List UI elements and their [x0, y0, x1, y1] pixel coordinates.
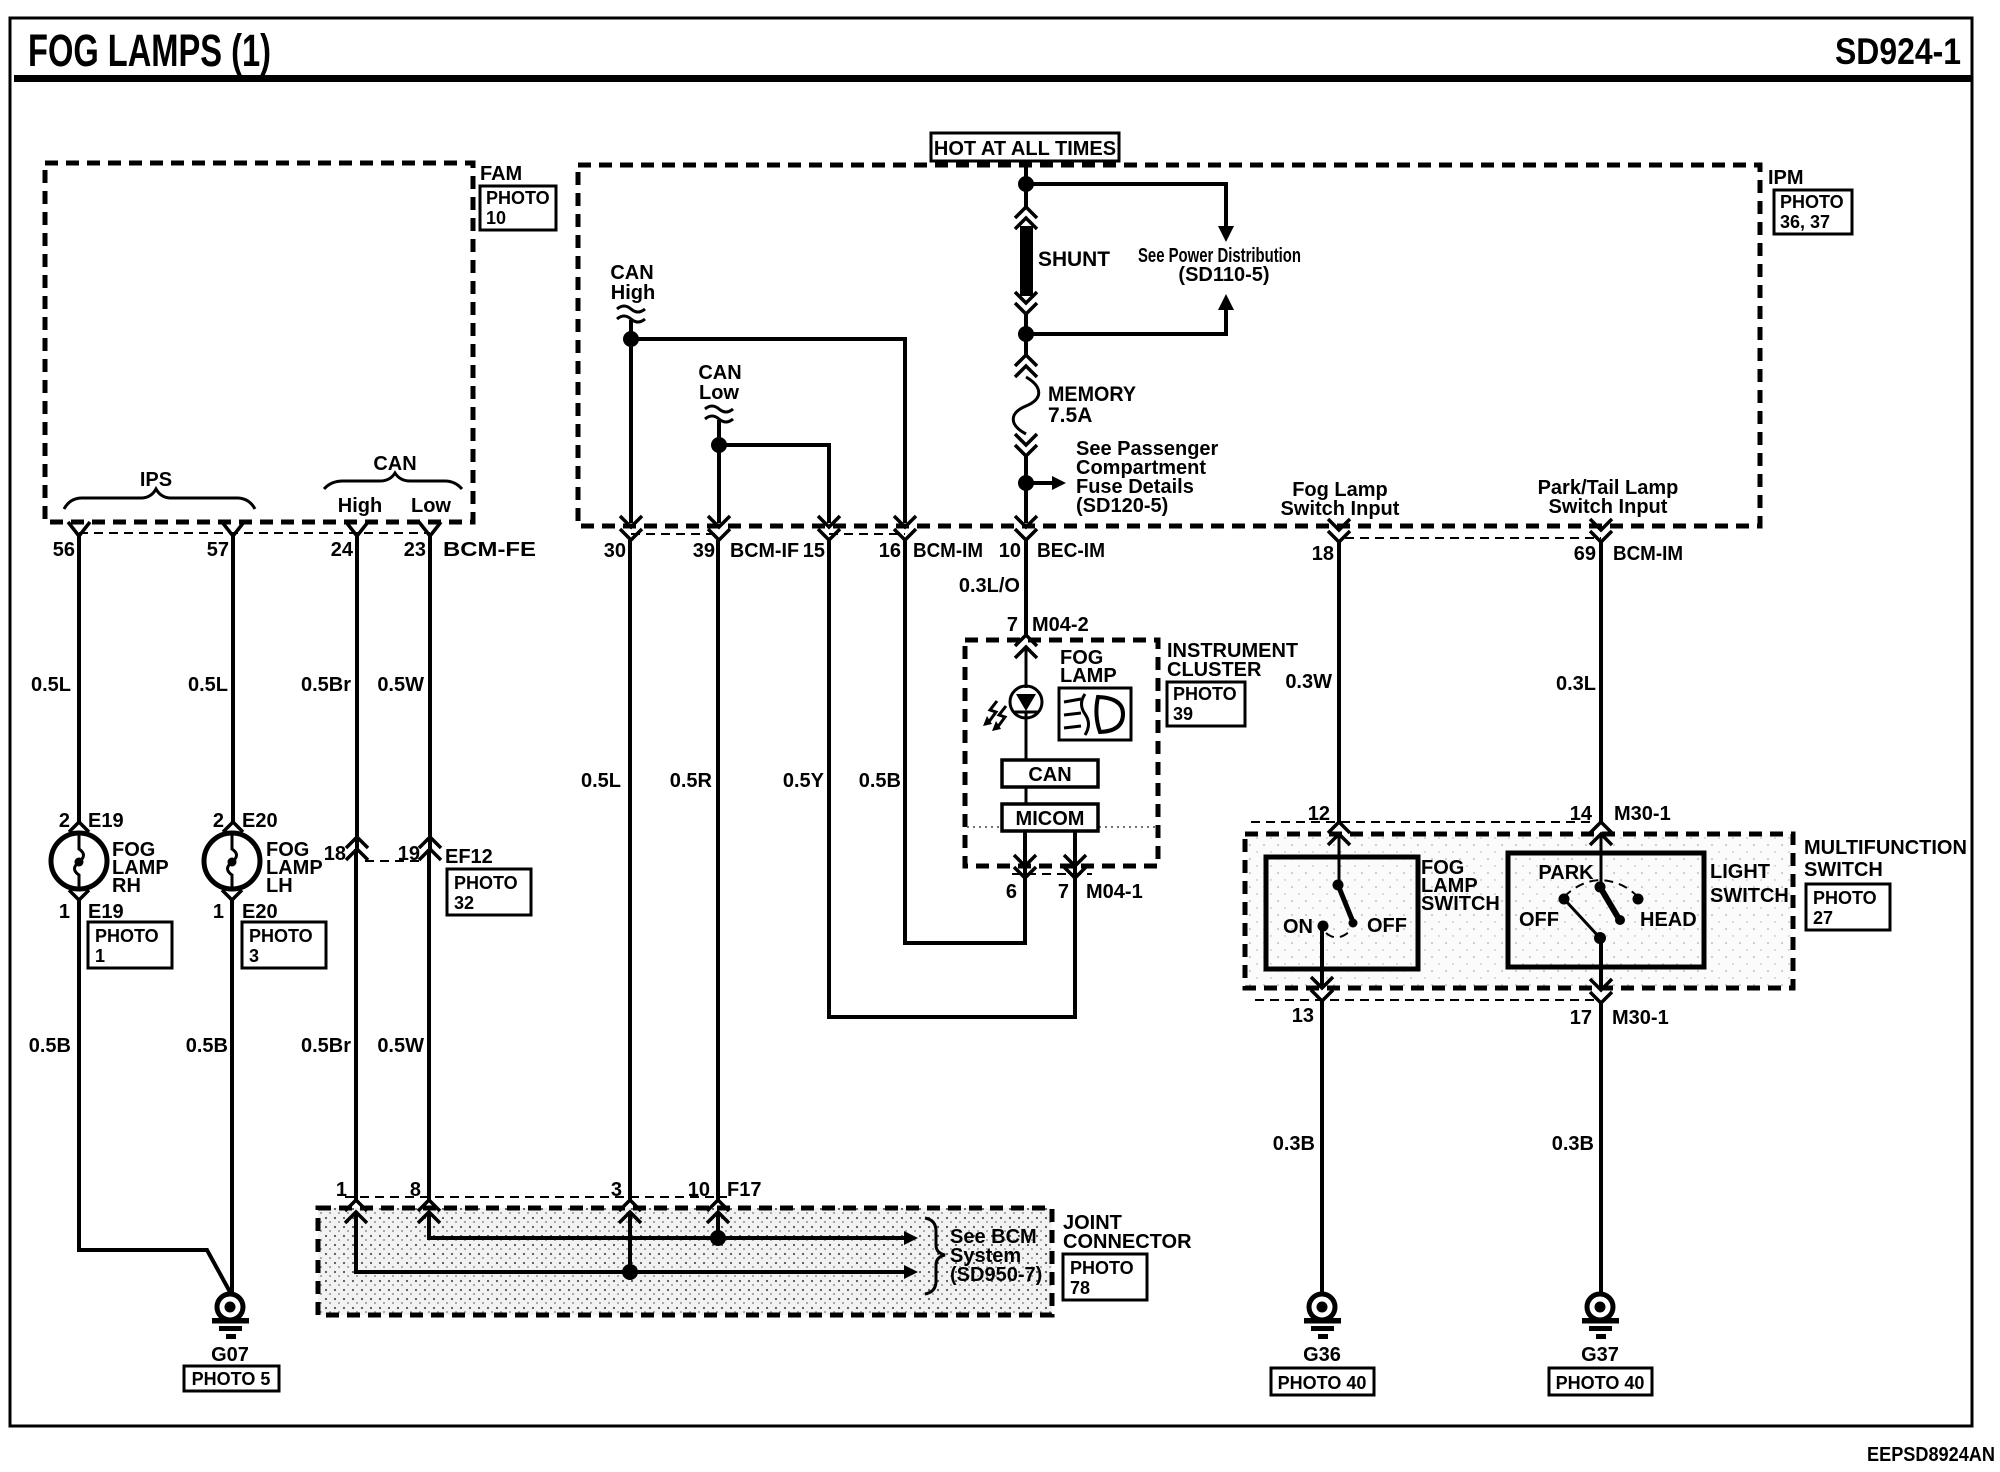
fog lamp RH E19 pin1 connector	[59, 890, 124, 923]
svg-text:MEMORY: MEMORY	[1048, 383, 1136, 406]
svg-text:39: 39	[693, 540, 715, 562]
LIGHT SWITCH label	[1710, 861, 1789, 907]
fog switch dashed travel arc	[1326, 930, 1351, 937]
wire 0.5R pin39 to joint pin10	[670, 540, 718, 1201]
svg-text:0.3L/O: 0.3L/O	[959, 575, 1020, 597]
svg-text:18: 18	[1312, 543, 1334, 565]
JOINT CONNECTOR PHOTO 78 box	[1063, 1254, 1147, 1300]
connector pin 56 crossing	[68, 522, 90, 536]
svg-text:2: 2	[59, 810, 70, 832]
svg-text:PHOTO: PHOTO	[486, 188, 550, 208]
FAM PHOTO 10 box	[480, 186, 556, 230]
svg-text:BCM-IM: BCM-IM	[1613, 543, 1683, 565]
svg-text:PHOTO: PHOTO	[95, 926, 159, 946]
svg-text:0.5L: 0.5L	[581, 770, 621, 792]
svg-text:PHOTO: PHOTO	[1173, 684, 1237, 704]
svg-text:Low: Low	[411, 495, 451, 517]
light switch OFF contact	[1519, 894, 1570, 932]
svg-text:7: 7	[1007, 614, 1018, 636]
wire 0.5B pin16 to cluster pin6	[859, 540, 1025, 943]
light switch output contact	[1564, 899, 1606, 944]
svg-text:3: 3	[611, 1179, 622, 1201]
G37 PHOTO 40 box	[1549, 1368, 1652, 1395]
svg-text:IPM: IPM	[1768, 167, 1804, 189]
wire 0.5Br pin24 upper	[301, 536, 357, 849]
svg-text:0.5Y: 0.5Y	[783, 770, 825, 792]
svg-text:Switch Input: Switch Input	[1281, 498, 1400, 520]
svg-text:High: High	[611, 282, 655, 304]
svg-text:6: 6	[1006, 881, 1017, 903]
svg-text:1: 1	[59, 901, 70, 923]
svg-text:M04-2: M04-2	[1032, 614, 1089, 636]
svg-text:0.5W: 0.5W	[377, 674, 424, 696]
connector pin 30 exit crossing	[620, 516, 642, 540]
shunt SHUNT bar	[1020, 226, 1110, 296]
svg-text:F17: F17	[727, 1179, 761, 1201]
svg-text:CAN: CAN	[373, 453, 416, 475]
svg-text:E19: E19	[88, 901, 124, 923]
joint connector pin 10 chevrons	[688, 1179, 762, 1223]
svg-text:13: 13	[1292, 1005, 1314, 1027]
svg-text:16: 16	[879, 540, 901, 562]
cluster PHOTO 39 box	[1167, 682, 1245, 726]
svg-text:BEC-IM: BEC-IM	[1037, 540, 1105, 562]
svg-text:HOT AT ALL TIMES: HOT AT ALL TIMES	[934, 138, 1116, 160]
joint connector pin 8 chevrons	[410, 1179, 440, 1223]
svg-text:0.3B: 0.3B	[1552, 1133, 1594, 1155]
svg-text:FOG LAMPS (1): FOG LAMPS (1)	[28, 25, 271, 76]
wire 0.3B fog switch to G36	[1273, 1001, 1322, 1294]
wire into light switch	[1600, 834, 1603, 887]
svg-text:8: 8	[410, 1179, 421, 1201]
svg-text:PHOTO 40: PHOTO 40	[1556, 1373, 1645, 1393]
connector pin 12 chevrons	[1308, 803, 1350, 845]
node CAN Low junction	[711, 437, 727, 453]
wire battery feed top	[1024, 161, 1028, 207]
See Passenger Compartment Fuse Details note	[1076, 438, 1219, 517]
node junction below shunt	[1018, 326, 1034, 342]
svg-text:0.5Br: 0.5Br	[301, 1035, 351, 1057]
svg-text:(SD950-7): (SD950-7)	[950, 1264, 1042, 1286]
svg-text:CAN: CAN	[698, 362, 741, 384]
svg-text:E20: E20	[242, 901, 278, 923]
ground G36	[1303, 1294, 1341, 1366]
svg-text:LIGHT: LIGHT	[1710, 861, 1770, 883]
wire 0.3L/O BEC-IM to cluster	[959, 540, 1026, 637]
svg-text:PHOTO: PHOTO	[249, 926, 313, 946]
svg-text:15: 15	[803, 540, 825, 562]
svg-text:BCM-IM: BCM-IM	[913, 540, 983, 562]
fog lamp LH E20 pin1 connector	[213, 890, 278, 923]
svg-text:CAN: CAN	[610, 262, 653, 284]
wire 0.5B E19 to ground	[29, 900, 230, 1292]
cluster faint dotted line	[967, 826, 1156, 828]
wire 0.3B light switch to G37	[1552, 1003, 1601, 1294]
wire CAN Low down (pin 39 column)	[717, 445, 721, 523]
wire CAN Low to pin 15 column	[719, 445, 829, 523]
multifunction PHOTO 27 box	[1806, 884, 1890, 930]
svg-text:69: 69	[1574, 543, 1596, 565]
svg-text:23: 23	[404, 539, 426, 561]
wire 0.5Y pin15 to cluster pin7	[783, 540, 1075, 1017]
fog lamp indicator icon box	[1059, 688, 1131, 740]
svg-text:0.3L: 0.3L	[1556, 673, 1596, 695]
IPM module box	[578, 165, 1760, 526]
svg-text:17: 17	[1570, 1007, 1592, 1029]
BCM-FE connector dashed line	[79, 532, 430, 534]
brace to BCM system	[925, 1218, 945, 1294]
svg-text:(SD120-5): (SD120-5)	[1076, 495, 1168, 517]
svg-text:Low: Low	[699, 382, 739, 404]
wire joint pin8 bus upper	[429, 1212, 918, 1245]
fuse bottom connector chevrons	[1015, 434, 1037, 523]
fuse MEMORY 7.5A element	[1013, 377, 1136, 434]
svg-text:SWITCH: SWITCH	[1710, 885, 1789, 907]
Fog Lamp Switch Input label	[1281, 479, 1400, 520]
wire branch from power distribution (bottom)	[1026, 294, 1234, 334]
svg-text:78: 78	[1070, 1278, 1090, 1298]
fog lamp RH E19 bulb	[51, 833, 169, 897]
fog lamp RH E19 pin2 connector	[59, 810, 124, 832]
svg-text:SWITCH: SWITCH	[1421, 893, 1500, 915]
fuse MEMORY 7.5A top chevrons	[1015, 355, 1037, 377]
svg-text:Switch Input: Switch Input	[1549, 496, 1668, 518]
wire joint pin10 drop	[716, 1212, 720, 1238]
instrument cluster box	[965, 640, 1158, 866]
svg-text:0.3W: 0.3W	[1285, 671, 1332, 693]
wire light switch output	[1599, 938, 1603, 990]
FAM module box	[45, 163, 473, 522]
svg-text:G37: G37	[1581, 1344, 1619, 1366]
svg-text:0.5B: 0.5B	[859, 770, 901, 792]
wire CAN High to pin 16 column	[631, 339, 905, 523]
INSTRUMENT CLUSTER label	[1167, 640, 1298, 681]
connector M04-1 pin 7 exit chevrons	[1064, 855, 1086, 878]
MULTIFUNCTION SWITCH label	[1804, 837, 1967, 881]
svg-text:PHOTO: PHOTO	[1813, 888, 1877, 908]
svg-text:PHOTO: PHOTO	[1070, 1258, 1134, 1278]
svg-text:EF12: EF12	[445, 846, 493, 868]
FAM label	[480, 163, 522, 185]
shunt bottom connector chevrons	[1015, 292, 1037, 355]
sheet code SD924-1	[1835, 31, 1961, 72]
wire fog switch output	[1320, 926, 1324, 988]
svg-text:0.5W: 0.5W	[377, 1035, 424, 1057]
svg-text:39: 39	[1173, 704, 1193, 724]
fog lamp LH E20 bulb	[204, 833, 323, 897]
svg-text:10: 10	[688, 1179, 710, 1201]
BCM-IF connector dashed line	[631, 533, 719, 535]
svg-text:G36: G36	[1303, 1344, 1341, 1366]
node joint pin10 junction	[710, 1230, 726, 1246]
svg-text:1: 1	[213, 901, 224, 923]
E19 PHOTO 1 box	[88, 922, 172, 968]
M30-1 upper connector dashed line	[1251, 821, 1595, 823]
svg-text:FAM: FAM	[480, 163, 522, 185]
svg-text:LH: LH	[266, 875, 293, 897]
fog switch OFF label	[1367, 915, 1407, 937]
connector pin 15 exit crossing	[818, 516, 840, 540]
joint connector pin 1 chevrons	[336, 1179, 367, 1223]
svg-text:56: 56	[53, 539, 75, 561]
joint connector pin 3 chevrons	[611, 1179, 641, 1223]
light switch PARK label	[1538, 862, 1594, 884]
svg-text:PHOTO: PHOTO	[1780, 192, 1844, 212]
svg-text:M04-1: M04-1	[1086, 881, 1143, 903]
connector pin 69 exit crossing	[1590, 519, 1612, 542]
connector pin 17 exit chevrons	[1570, 979, 1669, 1029]
svg-text:1: 1	[95, 946, 105, 966]
wire 0.3L pin69 to light switch	[1556, 542, 1601, 824]
IPS brace	[64, 469, 255, 509]
svg-text:0.5L: 0.5L	[31, 674, 71, 696]
ground G07	[211, 1294, 249, 1366]
wire joint pin3 drop	[628, 1212, 632, 1272]
node junction top of shunt	[1018, 176, 1034, 192]
connector pin 13 exit chevrons	[1292, 977, 1333, 1027]
M30-1 lower connector dashed line	[1255, 999, 1595, 1001]
joint connector box	[318, 1208, 1052, 1315]
svg-text:7.5A: 7.5A	[1048, 404, 1092, 427]
svg-text:2: 2	[213, 810, 224, 832]
svg-text:SD924-1: SD924-1	[1835, 31, 1961, 72]
svg-text:HEAD: HEAD	[1640, 909, 1697, 931]
connector pin 57 crossing	[222, 522, 244, 536]
connector pin 24 crossing	[346, 522, 368, 536]
svg-text:1: 1	[336, 1179, 347, 1201]
CAN Low net symbol	[698, 362, 741, 445]
svg-text:36, 37: 36, 37	[1780, 212, 1830, 232]
svg-text:PHOTO 5: PHOTO 5	[192, 1369, 271, 1389]
svg-text:IPS: IPS	[140, 469, 172, 491]
connector pin 14 chevrons	[1570, 803, 1671, 845]
joint connector thin dashed line	[345, 1196, 727, 1198]
ground G37	[1581, 1294, 1619, 1366]
svg-text:OFF: OFF	[1519, 909, 1559, 931]
connector pin 18 exit crossing	[1328, 519, 1350, 542]
svg-text:M30-1: M30-1	[1614, 803, 1671, 825]
fog lamp switch inner box	[1266, 857, 1418, 969]
svg-text:14: 14	[1570, 803, 1593, 825]
svg-text:0.5B: 0.5B	[29, 1035, 71, 1057]
svg-text:PHOTO 40: PHOTO 40	[1278, 1373, 1367, 1393]
svg-text:0.5L: 0.5L	[188, 674, 228, 696]
MICOM block	[1002, 804, 1098, 831]
svg-text:32: 32	[454, 893, 474, 913]
svg-text:10: 10	[486, 208, 506, 228]
fog lamp LH E20 pin2 connector	[213, 810, 278, 832]
svg-text:BCM-IF: BCM-IF	[730, 540, 799, 562]
wire joint pin1 bus lower	[356, 1212, 918, 1279]
See Power Distribution note	[1138, 245, 1301, 286]
svg-text:LAMP: LAMP	[1060, 665, 1117, 687]
svg-text:7: 7	[1058, 881, 1069, 903]
wire cluster internal top	[1025, 647, 1028, 688]
svg-text:E19: E19	[88, 810, 124, 832]
svg-text:ON: ON	[1283, 916, 1313, 938]
svg-text:10: 10	[999, 540, 1021, 562]
CAN High net symbol	[610, 262, 655, 339]
LED emission arrows	[983, 701, 1006, 731]
node CAN High junction	[623, 331, 639, 347]
wire 0.5W pin23 upper	[377, 536, 430, 849]
wire 0.3W pin18 to fog switch	[1285, 542, 1339, 824]
light switch HEAD contact	[1633, 894, 1697, 932]
wire CAN High down (pin 30 column)	[629, 339, 633, 523]
shunt top connector chevrons	[1015, 207, 1037, 229]
EF12 connector dashed link	[365, 846, 493, 868]
svg-text:EEPSD8924AN: EEPSD8924AN	[1867, 1444, 1995, 1466]
light switch inner box	[1508, 853, 1704, 967]
svg-text:RH: RH	[112, 875, 141, 897]
wire 0.5W pin23 lower to joint pin8	[377, 849, 429, 1201]
light switch dashed travel arc	[1564, 880, 1637, 897]
FOG LAMP label (cluster)	[1060, 647, 1117, 687]
node junction fuse details tap	[1018, 475, 1066, 491]
G07 PHOTO 5 box	[184, 1366, 279, 1391]
M04-1 connector dashed line	[1012, 873, 1092, 875]
svg-text:3: 3	[249, 946, 259, 966]
svg-text:SHUNT: SHUNT	[1038, 248, 1110, 271]
connector pin 16 exit crossing	[894, 516, 916, 540]
doc number EEPSD8924AN	[1867, 1444, 1995, 1466]
svg-text:18: 18	[324, 843, 346, 865]
svg-text:(SD110-5): (SD110-5)	[1178, 264, 1269, 286]
connector EF12 pin 18 chevrons	[324, 837, 368, 865]
svg-text:E20: E20	[242, 810, 278, 832]
BCM-IM connector dashed line	[829, 533, 905, 535]
LED fog indicator	[1010, 686, 1042, 760]
title FOG LAMPS (1)	[28, 25, 271, 76]
pin labels M04-1	[1006, 881, 1143, 903]
IPM label	[1768, 167, 1804, 189]
svg-text:0.5B: 0.5B	[186, 1035, 228, 1057]
wire 0.5B E20 to ground	[186, 900, 232, 1294]
CAN block	[1002, 760, 1098, 787]
svg-text:57: 57	[207, 539, 229, 561]
light switch pivot and lever	[1595, 882, 1626, 926]
fog switch lever	[1333, 880, 1358, 928]
svg-text:30: 30	[604, 540, 626, 562]
CAN brace (FAM)	[324, 453, 462, 517]
svg-text:G07: G07	[211, 1344, 249, 1366]
svg-text:CAN: CAN	[1028, 764, 1071, 786]
EF12 PHOTO 32 box	[447, 869, 531, 915]
svg-text:0.5Br: 0.5Br	[301, 674, 351, 696]
connector M04-2 pin 7 chevrons	[1007, 614, 1089, 658]
BCM-IM right connector dashed line	[1345, 537, 1601, 539]
pin labels IPM bottom	[604, 540, 1683, 565]
See BCM System note	[950, 1226, 1042, 1286]
svg-text:PHOTO: PHOTO	[454, 873, 518, 893]
connector M04-1 pin 6 exit chevrons	[1014, 855, 1036, 878]
wire branch to power distribution (top)	[1026, 184, 1234, 242]
pin labels BCM-FE	[53, 539, 536, 561]
svg-text:BCM-FE: BCM-FE	[443, 539, 536, 561]
wire 0.5L pin30 to joint pin3	[581, 540, 630, 1201]
svg-text:27: 27	[1813, 908, 1833, 928]
multifunction switch box	[1245, 834, 1793, 988]
HOT AT ALL TIMES tag	[931, 133, 1119, 161]
svg-text:0.5R: 0.5R	[670, 770, 713, 792]
svg-text:0.3B: 0.3B	[1273, 1133, 1315, 1155]
svg-text:M30-1: M30-1	[1612, 1007, 1669, 1029]
E20 PHOTO 3 box	[242, 922, 326, 968]
wire CAN to MICOM	[1025, 787, 1028, 804]
connector pin 23 crossing	[419, 522, 441, 536]
svg-text:SWITCH: SWITCH	[1804, 859, 1883, 881]
IPM PHOTO 36,37 box	[1774, 190, 1852, 234]
connector pin 10 exit crossing	[1015, 516, 1037, 540]
svg-text:MICOM: MICOM	[1016, 808, 1085, 830]
svg-text:24: 24	[331, 539, 354, 561]
wire MICOM pin7 drop	[1073, 831, 1077, 880]
G36 PHOTO 40 box	[1271, 1368, 1374, 1395]
wire 0.5Br pin24 lower to joint pin1	[301, 849, 356, 1201]
svg-text:CONNECTOR: CONNECTOR	[1063, 1231, 1192, 1253]
wire 0.5L pin57 to E20	[188, 536, 233, 822]
wire 0.5L pin56 to E19	[31, 536, 79, 822]
Park/Tail Lamp Switch Input label	[1538, 477, 1679, 518]
svg-text:PARK: PARK	[1538, 862, 1594, 884]
svg-text:OFF: OFF	[1367, 915, 1407, 937]
svg-text:High: High	[338, 495, 382, 517]
connector pin 39 exit crossing	[708, 516, 730, 540]
node joint pin3 junction	[622, 1264, 638, 1280]
FOG LAMP SWITCH label	[1421, 857, 1500, 915]
fog switch ON contact	[1283, 916, 1329, 938]
connector EF12 pin 19 chevrons	[398, 837, 441, 865]
wire MICOM pin6 drop	[1023, 831, 1027, 880]
svg-text:CLUSTER: CLUSTER	[1167, 659, 1262, 681]
JOINT CONNECTOR label	[1063, 1212, 1192, 1253]
svg-text:MULTIFUNCTION: MULTIFUNCTION	[1804, 837, 1967, 859]
wire into fog switch	[1338, 834, 1341, 885]
